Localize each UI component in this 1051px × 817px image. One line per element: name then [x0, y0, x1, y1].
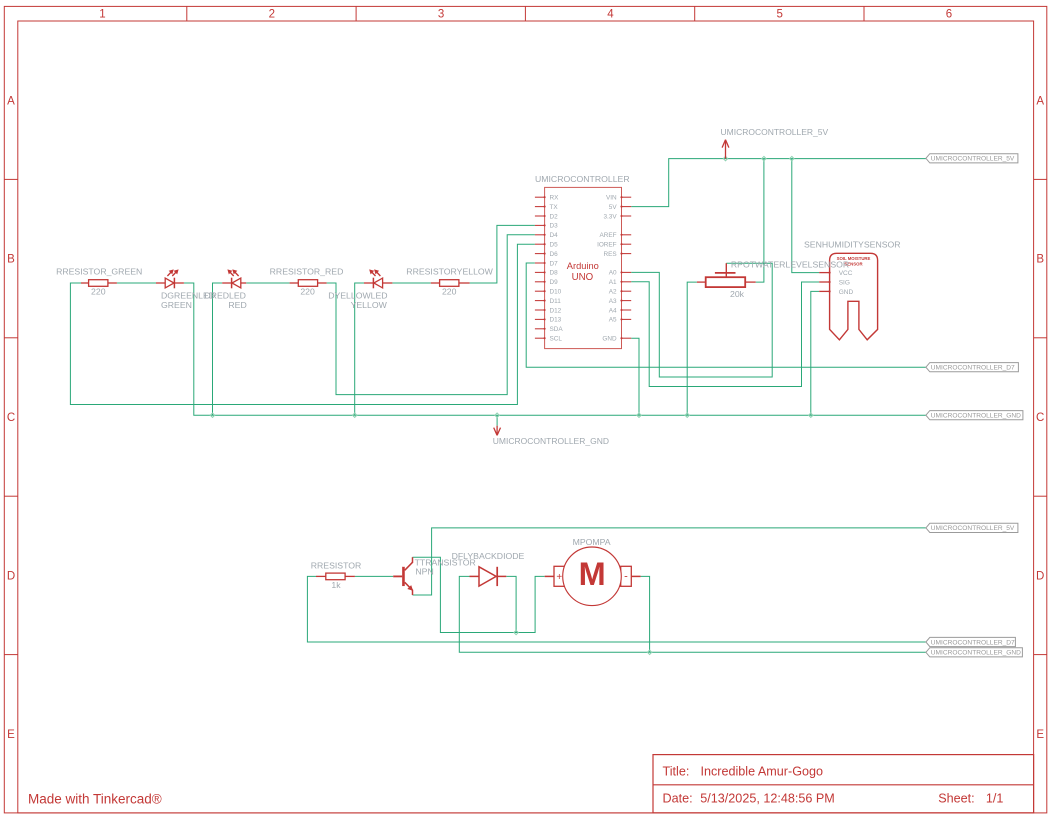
- svg-text:B: B: [7, 254, 15, 266]
- svg-text:UMICROCONTROLLER_D7: UMICROCONTROLLER_D7: [931, 639, 1015, 646]
- svg-text:RRESISTORYELLOW: RRESISTORYELLOW: [406, 267, 493, 277]
- wire diode cathode drop: [506, 576, 516, 632]
- svg-text:5/13/2025, 12:48:56 PM: 5/13/2025, 12:48:56 PM: [700, 791, 834, 805]
- wire junction at (791.8,158.6): [790, 156, 794, 160]
- svg-text:D7: D7: [550, 260, 559, 267]
- svg-text:D10: D10: [550, 289, 562, 296]
- svg-text:D6: D6: [550, 251, 559, 258]
- svg-text:Arduino: Arduino: [567, 261, 599, 271]
- svg-text:RRESISTOR: RRESISTOR: [311, 560, 362, 570]
- wire A0 net (uC A0 to pot wiper): [631, 263, 772, 377]
- wire D4 net (resistor_red to uC D4): [327, 235, 535, 395]
- svg-text:RX: RX: [550, 195, 560, 202]
- wire yellow LED cathode to GND rail: [355, 283, 364, 415]
- LED DREDLED: [222, 269, 246, 288]
- wire base/D7 bottom net (R resistor to D7 flag): [307, 576, 926, 642]
- svg-text:UMICROCONTROLLER_GND: UMICROCONTROLLER_GND: [931, 650, 1021, 657]
- svg-text:A: A: [1036, 95, 1044, 107]
- svg-text:4: 4: [607, 9, 614, 21]
- svg-text:A2: A2: [609, 289, 617, 296]
- resistor RRESISTOR_RED 220: [290, 280, 327, 287]
- svg-text:IOREF: IOREF: [597, 242, 617, 249]
- svg-text:A0: A0: [609, 270, 617, 277]
- resistor RRESISTOR 1k: [316, 573, 355, 580]
- svg-text:RED: RED: [228, 300, 246, 310]
- svg-text:UMICROCONTROLLER_5V: UMICROCONTROLLER_5V: [931, 156, 1015, 163]
- svg-text:D3: D3: [550, 223, 559, 230]
- wire D3 net (resistor_yellow to uC D3): [470, 225, 535, 283]
- svg-text:D5: D5: [550, 242, 559, 249]
- svg-text:UMICROCONTROLLER_GND: UMICROCONTROLLER_GND: [493, 436, 609, 446]
- wire junction at (212.5,415.2): [210, 413, 214, 417]
- wire emitter to bottom 5V flag: [413, 528, 926, 595]
- wire GND power-flag stub: [496, 415, 498, 426]
- svg-text:UMICROCONTROLLER_5V: UMICROCONTROLLER_5V: [931, 525, 1015, 532]
- svg-text:GREEN: GREEN: [161, 300, 192, 310]
- svg-text:1/1: 1/1: [986, 791, 1004, 805]
- wire junction at (810.8,415.2): [809, 413, 813, 417]
- svg-text:AREF: AREF: [600, 232, 617, 239]
- svg-text:B: B: [1036, 254, 1044, 266]
- svg-text:D: D: [1036, 571, 1044, 583]
- net flag UMICROCONTROLLER_5V (bottom): [926, 523, 1018, 532]
- svg-text:Sheet:: Sheet:: [938, 791, 974, 805]
- potentiometer RPOTWATERLEVELSENSOR 20k: [697, 263, 756, 287]
- wire D5 net (resistor_green to uC D5): [70, 244, 535, 404]
- svg-text:3: 3: [438, 9, 444, 21]
- svg-text:RRESISTOR_RED: RRESISTOR_RED: [270, 267, 344, 277]
- svg-text:RPOTWATERLEVELSENSOR: RPOTWATERLEVELSENSOR: [731, 260, 849, 270]
- svg-text:UMICROCONTROLLER_D7: UMICROCONTROLLER_D7: [931, 365, 1015, 372]
- wire A1 net (uC A1 to sensor SIG): [631, 282, 819, 387]
- wire collector to motor plus: [413, 557, 545, 632]
- svg-text:220: 220: [300, 286, 315, 296]
- svg-text:SENHUMIDITYSENSOR: SENHUMIDITYSENSOR: [804, 240, 901, 250]
- wire LED_yellow to R_yellow: [392, 282, 430, 284]
- wire red LED cathode to GND rail: [213, 283, 223, 415]
- svg-text:D2: D2: [550, 213, 559, 220]
- wire uC GND pin to GND rail: [631, 338, 639, 415]
- LED DGREENLED: [156, 269, 184, 288]
- svg-text:D12: D12: [550, 307, 562, 314]
- svg-text:D11: D11: [550, 298, 562, 305]
- svg-text:D13: D13: [550, 317, 562, 324]
- motor MPOMPA: [545, 547, 641, 606]
- svg-text:220: 220: [91, 286, 106, 296]
- sensor SENHUMIDITYSENSOR (soil moisture): [819, 253, 877, 339]
- net flag UMICROCONTROLLER_5V (top): [926, 154, 1018, 163]
- svg-text:A3: A3: [609, 298, 617, 305]
- svg-text:220: 220: [442, 286, 457, 296]
- svg-text:YELLOW: YELLOW: [351, 300, 388, 310]
- wire junction at (639,415.2): [637, 413, 641, 417]
- net flag UMICROCONTROLLER_GND (mid): [926, 411, 1023, 420]
- wire pot right terminal to 5V rail: [756, 159, 764, 283]
- svg-text:NPN: NPN: [415, 567, 433, 577]
- net flag UMICROCONTROLLER_GND (bottom): [926, 648, 1023, 657]
- svg-text:A: A: [7, 95, 15, 107]
- wire GND net (green LED cathode + GND rail to flag): [184, 283, 926, 415]
- svg-text:SDA: SDA: [550, 326, 564, 333]
- svg-text:UMICROCONTROLLER_GND: UMICROCONTROLLER_GND: [931, 413, 1021, 420]
- svg-text:2: 2: [269, 9, 275, 21]
- svg-text:Incredible Amur-Gogo: Incredible Amur-Gogo: [701, 764, 824, 778]
- power flag UMICROCONTROLLER_GND (down arrow): [494, 426, 501, 436]
- LED DYELLOWLED: [364, 269, 392, 288]
- svg-text:SCL: SCL: [550, 336, 563, 343]
- svg-text:VIN: VIN: [606, 195, 617, 202]
- svg-text:Title:: Title:: [663, 764, 690, 778]
- wire D7 net (uC D7 to right flag): [526, 263, 926, 367]
- svg-text:5: 5: [776, 9, 782, 21]
- resistor RRESISTOR_GREEN 220: [81, 280, 117, 287]
- wire sensor VCC to 5V rail: [792, 159, 819, 273]
- svg-text:D: D: [7, 571, 15, 583]
- wire diode anode to bottom GND flag: [459, 576, 926, 652]
- wire pot left terminal to GND rail: [687, 282, 697, 415]
- power flag UMICROCONTROLLER_5V (up arrow): [722, 140, 729, 159]
- svg-text:D9: D9: [550, 279, 559, 286]
- svg-text:E: E: [7, 729, 15, 741]
- svg-text:MPOMPA: MPOMPA: [573, 537, 611, 547]
- transistor TTRANSISTOR Q NPN: [393, 557, 413, 595]
- svg-text:3.3V: 3.3V: [603, 213, 617, 220]
- svg-text:UMICROCONTROLLER: UMICROCONTROLLER: [535, 174, 630, 184]
- svg-text:5V: 5V: [609, 204, 618, 211]
- wire junction at (687.2,415.2): [685, 413, 689, 417]
- wire junction at (497.1,415.2): [495, 413, 499, 417]
- svg-text:M: M: [579, 556, 606, 592]
- svg-text:6: 6: [946, 9, 952, 21]
- wire 5V net (uC 5V pin to 5V rail and flag): [631, 159, 926, 207]
- svg-text:A5: A5: [609, 317, 617, 324]
- svg-text:A4: A4: [609, 307, 617, 314]
- svg-text:20k: 20k: [730, 289, 745, 299]
- svg-text:DFLYBACKDIODE: DFLYBACKDIODE: [452, 551, 525, 561]
- svg-text:GND: GND: [839, 289, 854, 296]
- svg-text:D4: D4: [550, 232, 559, 239]
- resistor RRESISTORYELLOW 220: [431, 280, 470, 287]
- wire motor minus to bottom GND net: [641, 576, 650, 652]
- svg-text:1: 1: [99, 9, 105, 21]
- svg-text:C: C: [7, 412, 15, 424]
- diode DFLYBACKDIODE: [470, 567, 507, 586]
- svg-text:RES: RES: [603, 251, 616, 258]
- wire sensor GND to GND rail: [811, 291, 819, 415]
- svg-text:Made with Tinkercad®: Made with Tinkercad®: [28, 792, 162, 807]
- svg-text:TX: TX: [550, 204, 559, 211]
- net flag UMICROCONTROLLER_D7 (bottom): [926, 637, 1016, 646]
- wire junction at (516.1,632.5): [514, 630, 518, 634]
- wire LED_red to R_red: [246, 282, 289, 284]
- net flag UMICROCONTROLLER_D7 (mid): [926, 363, 1019, 372]
- svg-text:Date:: Date:: [663, 791, 693, 805]
- wire R 1k to transistor base: [355, 575, 393, 577]
- svg-text:C: C: [1036, 412, 1044, 424]
- svg-text:+: +: [556, 572, 562, 583]
- svg-text:UNO: UNO: [572, 272, 594, 283]
- wire junction at (763.9,158.6): [762, 156, 766, 160]
- wire junction at (725.5,158.6): [723, 156, 727, 160]
- microcontroller UMICROCONTROLLER (Arduino UNO): [535, 187, 631, 348]
- svg-text:RRESISTOR_GREEN: RRESISTOR_GREEN: [56, 267, 142, 277]
- svg-text:GND: GND: [602, 336, 617, 343]
- svg-text:-: -: [624, 570, 628, 582]
- svg-text:A1: A1: [609, 279, 617, 286]
- svg-text:VCC: VCC: [839, 270, 853, 277]
- wire R_green to LED_green: [117, 282, 156, 284]
- svg-text:SIG: SIG: [839, 280, 850, 287]
- wire junction at (649.6,652.3): [647, 650, 651, 654]
- wire junction at (354.7,415.2): [353, 413, 357, 417]
- svg-text:1k: 1k: [331, 580, 341, 590]
- svg-text:E: E: [1036, 729, 1044, 741]
- svg-text:UMICROCONTROLLER_5V: UMICROCONTROLLER_5V: [721, 127, 829, 137]
- svg-text:D8: D8: [550, 270, 559, 277]
